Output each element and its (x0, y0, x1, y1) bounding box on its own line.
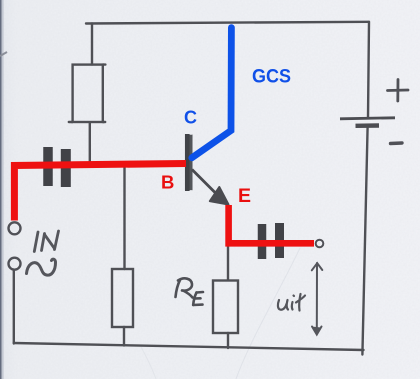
wire RE bottom lead (227, 333, 229, 348)
svg-text:E: E (238, 185, 251, 207)
wire left vertical below IN terminal (13, 271, 15, 344)
svg-text:C: C (184, 108, 197, 128)
uit measurement arrow (double-headed) (312, 263, 323, 335)
wire top horizontal (86, 22, 369, 24)
wire bottom horizontal (14, 343, 364, 350)
battery - label (391, 141, 403, 145)
wire top-left corner drop (91, 24, 93, 65)
node output terminal circle (316, 240, 324, 248)
transistor Q1 emitter arrowhead (210, 187, 229, 205)
wire emitter lead to RE (227, 246, 229, 280)
label uit (handwritten) (278, 294, 305, 311)
label RE (handwritten) (176, 278, 204, 305)
label sine symbol (27, 259, 56, 275)
transistor Q1 emitter line (192, 170, 219, 197)
wire middle vertical (base divider) (123, 168, 125, 270)
uit arrow bottom head fill (312, 327, 322, 335)
label IN (handwritten) (34, 231, 58, 252)
resistor R1 (top-left) (73, 65, 103, 122)
node IN terminal lower circle (9, 258, 21, 270)
battery + label (388, 80, 409, 102)
wire R1 bottom lead (89, 123, 91, 163)
resistor RE (213, 281, 238, 334)
capacitor C2 plates (output) (262, 223, 280, 259)
faint pencil smudge top-left edge (0, 52, 7, 56)
wire blue collector (GCS) (192, 28, 232, 158)
wire right vertical lower (from battery) (362, 127, 367, 355)
wire R2 bottom lead (123, 327, 125, 346)
wire right vertical upper (to battery) (368, 22, 369, 118)
svg-text:B: B (161, 172, 174, 193)
svg-text:GCS: GCS (252, 66, 291, 87)
scan left edge (0, 0, 2, 379)
paper creases (236, 248, 300, 379)
resistor R2 (lower-left divider) (112, 269, 133, 327)
wire red input/base (IN terminal up and across to base) (14, 164, 186, 221)
node IN terminal upper circle (9, 222, 21, 234)
wire red emitter to output (229, 205, 314, 243)
battery B1 plates (340, 118, 395, 126)
capacitor C1 plates (input) (48, 147, 66, 187)
transistor Q1 base bar (187, 134, 190, 191)
